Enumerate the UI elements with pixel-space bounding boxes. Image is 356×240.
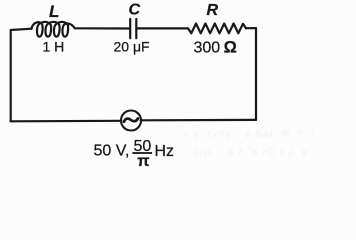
- capacitor C right plate: [135, 19, 137, 38]
- resistor R zigzag: [188, 24, 246, 34]
- wire: bottom-left segment: [11, 120, 122, 123]
- wire: left vertical side: [10, 30, 12, 121]
- svg-text:, }ru, ' a r 'n rC r j, y: , }ru, ' a r 'n rC r j, y: [186, 147, 308, 158]
- wire: inductor to capacitor: [75, 27, 129, 29]
- capacitor C left plate: [129, 19, 131, 38]
- wire: resistor to top-right corner: [246, 27, 256, 29]
- wire: bottom-right segment: [141, 119, 256, 122]
- inductor L1 coil: [32, 22, 75, 37]
- svg-text:Hz: Hz: [155, 143, 175, 160]
- svg-text:R: R: [207, 2, 219, 19]
- wire: capacitor to resistor: [138, 27, 189, 29]
- svg-text:L: L: [49, 2, 59, 21]
- svg-text:1 H: 1 H: [43, 38, 65, 54]
- wire: top-left to inductor: [11, 29, 32, 30]
- fraction bar: [133, 152, 153, 154]
- svg-text:20 μF: 20 μF: [114, 39, 150, 55]
- svg-text:50 V,: 50 V,: [94, 143, 130, 160]
- AC source sine symbol: [124, 118, 138, 121]
- AC source circle: [121, 111, 141, 131]
- svg-text:r e' tyne ' s bar 'R 'f, i: r e' tyne ' s bar 'R 'f, i: [184, 129, 315, 140]
- wire: right vertical side: [255, 28, 257, 120]
- svg-text:π: π: [137, 153, 149, 168]
- faint page bleed-through text, bottom right: [184, 129, 315, 158]
- svg-text:C: C: [129, 2, 141, 19]
- svg-text:300 Ω: 300 Ω: [194, 39, 237, 57]
